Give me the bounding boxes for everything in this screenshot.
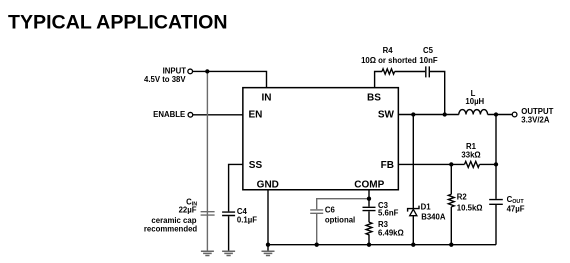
svg-text:47µF: 47µF [507, 204, 525, 213]
svg-text:SW: SW [378, 109, 395, 120]
svg-text:C6: C6 [325, 206, 336, 215]
svg-text:10nF: 10nF [419, 56, 437, 65]
svg-text:TYPICAL APPLICATION: TYPICAL APPLICATION [8, 11, 228, 33]
svg-text:R2: R2 [457, 193, 468, 202]
svg-text:EN: EN [249, 109, 263, 120]
svg-text:recommended: recommended [144, 224, 198, 233]
svg-text:optional: optional [325, 215, 355, 224]
svg-text:ENABLE: ENABLE [153, 110, 185, 119]
svg-text:4.5V to 38V: 4.5V to 38V [144, 75, 186, 84]
svg-text:10µH: 10µH [465, 97, 484, 106]
svg-text:0.1µF: 0.1µF [237, 216, 257, 225]
svg-text:R4: R4 [383, 46, 394, 55]
svg-text:COMP: COMP [354, 179, 384, 190]
svg-text:D1: D1 [421, 203, 432, 212]
svg-text:10.5kΩ: 10.5kΩ [457, 204, 483, 213]
svg-text:6.49kΩ: 6.49kΩ [378, 229, 404, 238]
svg-text:C5: C5 [423, 46, 434, 55]
svg-text:SS: SS [249, 160, 263, 171]
svg-text:5.6nF: 5.6nF [378, 208, 399, 217]
svg-text:3.3V/2A: 3.3V/2A [521, 115, 550, 124]
svg-text:GND: GND [257, 179, 279, 190]
svg-text:22µF: 22µF [179, 206, 197, 215]
svg-text:33kΩ: 33kΩ [461, 150, 480, 159]
svg-text:B340A: B340A [421, 213, 446, 222]
svg-text:COUT: COUT [507, 195, 525, 205]
svg-text:INPUT: INPUT [163, 67, 187, 76]
svg-text:IN: IN [262, 92, 272, 103]
svg-text:10Ω or shorted: 10Ω or shorted [361, 56, 417, 65]
svg-text:BS: BS [367, 92, 381, 103]
svg-text:FB: FB [381, 160, 394, 171]
